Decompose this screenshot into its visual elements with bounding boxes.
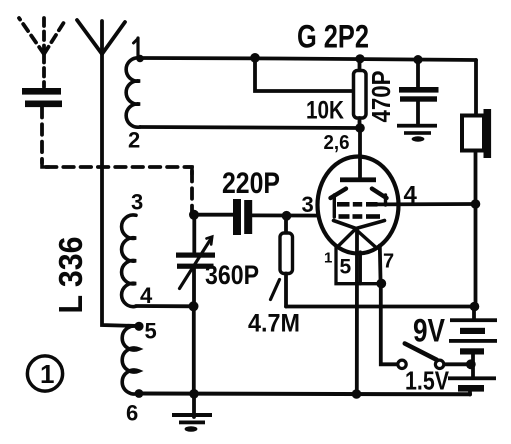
wire pin 7 lead: [378, 246, 383, 284]
pointer stroke for 4.7M label: [271, 280, 280, 300]
antenna W2 (main antenna): [77, 20, 102, 54]
svg-text:5: 5: [340, 256, 352, 279]
tube filament leg right (to pin 7): [357, 230, 376, 247]
antenna W1 (dashed alternative antenna): [19, 18, 66, 87]
svg-text:3: 3: [131, 190, 143, 215]
capacitor C3 220P: [194, 213, 233, 217]
tube base box pin 5: [336, 248, 382, 284]
wire dashed from C1 down and right to node of pin 3: [42, 107, 192, 212]
wire anode lead from node 2,6: [358, 128, 362, 178]
battery B2 1.5V: [448, 376, 496, 391]
svg-text:2: 2: [128, 128, 140, 153]
svg-text:7: 7: [383, 251, 394, 273]
node coil pin 6: [135, 389, 144, 398]
ground (bottom): [192, 394, 196, 417]
node at coil pin 1: [136, 55, 144, 63]
svg-text:220P: 220P: [222, 167, 280, 200]
ground (below 470P): [397, 124, 437, 142]
svg-text:3: 3: [302, 192, 314, 217]
resistor R2 4.7M: [284, 216, 288, 233]
tube beam whisker right: [372, 189, 387, 198]
svg-text:10K: 10K: [306, 97, 344, 125]
node coil tap pin 5: [134, 322, 143, 331]
node junction top-left: [250, 53, 260, 63]
tube grid row 1 (screen grid, pin 4): [337, 202, 378, 207]
svg-text:360P: 360P: [205, 260, 259, 290]
variable capacitor C4 360P: [192, 215, 196, 253]
tube filament leg left (to pin 1): [337, 230, 355, 248]
wire switch to battery mid: [445, 362, 467, 366]
svg-text:1: 1: [324, 250, 332, 267]
tube V1 envelope: [318, 157, 399, 254]
resistor R1 10K: [358, 60, 362, 71]
tube grid stub right (to pin 4 wire): [384, 195, 387, 205]
coil L winding 5-6: [122, 326, 139, 394]
switch arm: [405, 344, 437, 360]
svg-text:9V: 9V: [413, 313, 446, 349]
svg-text:470P: 470P: [366, 71, 396, 123]
wire pin 7 down to switch: [381, 284, 398, 365]
wire right rail below speaker: [474, 151, 478, 308]
tube anode plate: [340, 177, 376, 182]
wire dashed-run corner elbows: [42, 160, 49, 167]
node pin 7 junction: [376, 279, 386, 289]
capacitor C1 (antenna coupling cap): [22, 88, 62, 107]
wire from pin1 node down to 10K resistor: [255, 58, 352, 91]
tube filament shallow V: [334, 221, 385, 229]
battery B1 9V: [472, 307, 476, 320]
node filament center line / rail: [352, 389, 362, 399]
node pin4 / rail: [471, 199, 481, 209]
tube beam whisker left: [331, 189, 347, 198]
wire pin 2 of coil to anode node: [140, 127, 360, 128]
wire filament center tap down to ground rail: [355, 229, 359, 394]
node ground junction: [189, 389, 199, 399]
switch S1: [398, 360, 406, 368]
node 220P / grid / 4.7M junction: [282, 211, 292, 221]
tube grid stub left (to pin 3 wire): [333, 195, 336, 217]
figure number circled 1: [27, 356, 62, 391]
node resistor top: [355, 54, 364, 63]
wire antenna lead down to coil tap 5: [102, 54, 138, 326]
tube grid row 2 (control grid, pin 3): [339, 214, 381, 219]
capacitor C2 470P: [416, 60, 420, 87]
wire coil pin4 to 360P bottom: [136, 304, 194, 308]
svg-text:2,6: 2,6: [324, 132, 350, 154]
node battery mid: [466, 359, 476, 369]
speaker BF1 (earphone): [474, 60, 478, 116]
node pin3 junction (dashed line, coil 3, 360P, 220P): [189, 210, 199, 220]
node anode 2,6: [355, 123, 365, 133]
svg-text:4: 4: [404, 182, 418, 209]
wire 360P bottom to ground rail: [192, 306, 196, 394]
svg-text:1.5V: 1.5V: [405, 366, 450, 396]
svg-text:1: 1: [40, 359, 54, 389]
pin label 1 (coil top): [136, 38, 139, 57]
coil L winding 3-4: [122, 215, 136, 307]
arrow of variable capacitor: [180, 238, 212, 289]
node rail / battery top: [470, 302, 480, 312]
coil L winding 1-2: [126, 58, 140, 127]
wire bottom ground rail: [139, 392, 471, 397]
node 360P bottom: [189, 301, 199, 311]
wire 4.7M bottom to battery top node: [286, 305, 475, 309]
svg-text:4.7M: 4.7M: [248, 310, 300, 338]
wire pin 4 to right rail: [377, 202, 476, 206]
svg-text:L 336: L 336: [52, 237, 89, 314]
wire top rail: [139, 58, 476, 60]
node 470P top: [413, 55, 422, 64]
svg-text:G 2P2: G 2P2: [297, 19, 369, 55]
svg-text:5: 5: [145, 319, 157, 344]
svg-text:6: 6: [126, 401, 138, 426]
